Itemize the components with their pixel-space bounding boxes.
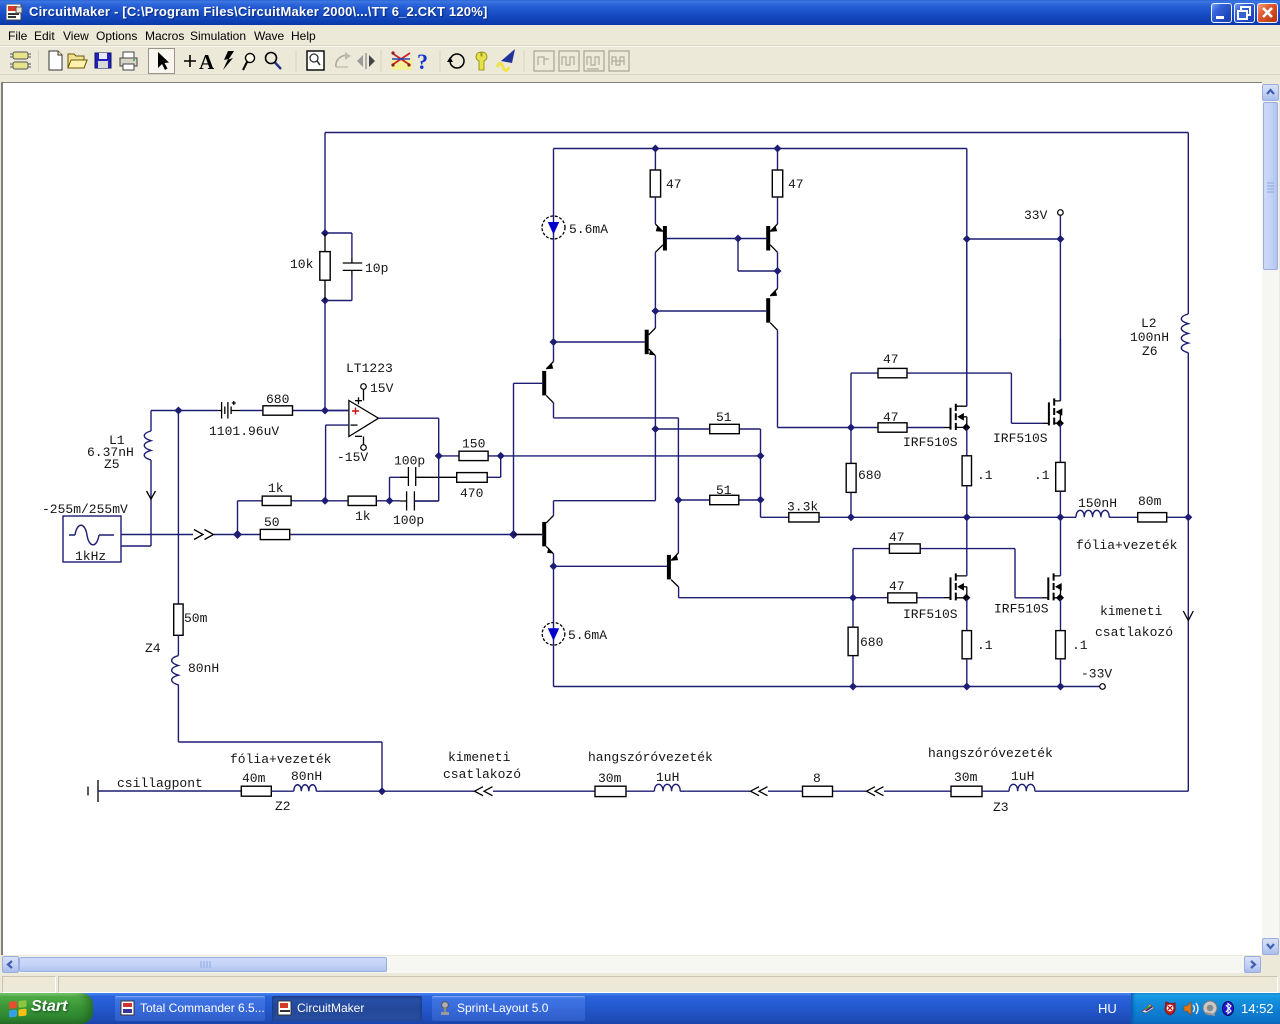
resistor 47 lower gate C — [853, 530, 1048, 598]
inductor L2 100nH Z6 right rail — [1130, 133, 1188, 792]
taskbar — [0, 993, 1280, 1024]
transistor Q4 VAS NPN — [554, 311, 656, 429]
node at 553.5,566.3 — [550, 562, 558, 570]
svg-text:51: 51 — [716, 483, 732, 498]
status bar — [0, 974, 1280, 993]
svg-text:47: 47 — [666, 177, 682, 192]
inductor 150nH output — [1076, 496, 1117, 517]
svg-text:33V: 33V — [1024, 208, 1048, 223]
wire op-amp output — [379, 418, 439, 501]
svg-text:80nH: 80nH — [188, 661, 219, 676]
wire negative rail bottom — [554, 645, 1100, 686]
svg-text:LT1223: LT1223 — [346, 361, 393, 376]
connector chevrons right2 — [867, 787, 884, 796]
wire source output — [121, 534, 542, 536]
node at 1188.3,517.3 — [1184, 513, 1192, 521]
svg-text:10p: 10p — [365, 261, 388, 276]
node at 678.4,500 — [674, 496, 682, 504]
mosfet M1 IRF510S upper-left — [903, 239, 970, 456]
inductor 80nH Z4 — [172, 635, 220, 687]
window title bar — [0, 0, 1280, 25]
wire top supply rail — [325, 132, 1188, 134]
connector chevrons right — [194, 530, 214, 540]
node at 853,686.5 — [849, 683, 857, 691]
svg-text:1kHz: 1kHz — [75, 549, 106, 564]
resistor .1 lower-left — [962, 631, 993, 687]
resistor 47 upper right rail — [772, 149, 803, 198]
resistor 50m Z4 — [145, 604, 208, 656]
icon open — [68, 54, 87, 68]
svg-text:csatlakozó: csatlakozó — [1095, 625, 1173, 640]
svg-text:100nH: 100nH — [1130, 330, 1169, 345]
svg-text:Z4: Z4 — [145, 641, 161, 656]
icon mirror — [357, 53, 375, 69]
wire output rail — [851, 516, 1076, 518]
svg-text:150nH: 150nH — [1078, 496, 1117, 511]
node at 178.4,410.5 — [174, 407, 182, 415]
svg-text:IRF510S: IRF510S — [903, 607, 958, 622]
wire star point to connector — [321, 790, 474, 792]
svg-text:150: 150 — [462, 437, 485, 452]
icon save — [95, 53, 111, 68]
node at 1060.4,239 — [1056, 235, 1064, 243]
svg-text:30m: 30m — [598, 771, 622, 786]
svg-text:Z6: Z6 — [1142, 344, 1158, 359]
svg-text:IRF510S: IRF510S — [993, 431, 1048, 446]
resistor 3.3k — [761, 500, 852, 523]
icon new — [49, 51, 62, 70]
mosfet M2 IRF510S upper-right — [993, 339, 1064, 462]
vertical scrollbar — [1262, 84, 1279, 955]
inductor 1uH speaker2 — [982, 769, 1041, 791]
icon rotate gray — [336, 52, 351, 67]
svg-text:Z2: Z2 — [275, 799, 291, 814]
svg-text:-255m/255mV: -255m/255mV — [42, 502, 128, 517]
wire Q6 emitter to Q7 base — [554, 565, 667, 567]
inductor 80nH Z2 — [271, 769, 322, 791]
resistor 30m speaker2 Z3 — [884, 770, 1009, 815]
grayed scope buttons — [534, 51, 629, 71]
node at 777.5,148.5 — [774, 145, 782, 153]
node at 513.5,534.5 — [509, 530, 518, 539]
svg-text:47: 47 — [883, 410, 899, 425]
icon lightning — [223, 51, 234, 70]
horizontal scrollbar — [2, 956, 1261, 973]
svg-text:1101.96uV: 1101.96uV — [209, 424, 279, 439]
toolbar — [0, 46, 1280, 79]
transistor Q3 PNP driver — [766, 271, 851, 428]
svg-text:.1: .1 — [977, 468, 993, 483]
node at 500.7,455.9 — [497, 452, 505, 460]
resistor 51 lower — [678, 483, 760, 505]
node at 1060.5,686.5 — [1057, 683, 1065, 691]
svg-text:hangszóróvezeték: hangszóróvezeték — [588, 750, 713, 765]
node at 655.4,311 — [651, 307, 659, 315]
svg-text:47: 47 — [889, 530, 905, 545]
resistor 10k — [290, 233, 330, 301]
svg-text:8: 8 — [813, 771, 821, 786]
node at 325,500.8 — [321, 497, 329, 505]
svg-text:.1: .1 — [977, 638, 993, 653]
svg-text:50: 50 — [264, 515, 280, 530]
node at 325,410.5 — [321, 407, 329, 415]
svg-text:50m: 50m — [184, 611, 208, 626]
svg-text:kimeneti: kimeneti — [448, 750, 511, 765]
wire Q2 base loop — [738, 239, 778, 272]
transistor Q7 lower PNP — [667, 500, 853, 598]
node at 777.5,271 — [774, 267, 782, 275]
wire second rail to current source I1 — [554, 149, 967, 217]
node at 760.5,455.9 — [757, 452, 765, 460]
svg-text:.1: .1 — [1034, 468, 1050, 483]
capacitor 10p — [325, 233, 388, 301]
svg-text:-15V: -15V — [337, 450, 368, 465]
resistor 8 speaker — [768, 771, 866, 797]
wire input battery row — [151, 410, 349, 412]
ground csillagpont — [88, 776, 241, 802]
mosfet M3 IRF510S lower-left — [903, 517, 970, 630]
svg-text:51: 51 — [716, 410, 732, 425]
resistor .1 upper-right — [1034, 462, 1065, 517]
svg-text:Z3: Z3 — [993, 800, 1009, 815]
resistor 1k first — [262, 481, 291, 506]
node at 438.7,455.9 — [435, 452, 443, 460]
connector chevrons mid — [751, 787, 768, 796]
node at 760.5,499.8 — [757, 496, 765, 504]
selected arrow tool — [149, 49, 175, 74]
icon reset — [447, 54, 464, 68]
transistor Q5 input PNP — [514, 342, 679, 535]
terminal 33V — [1058, 210, 1064, 216]
inductor 1uH speaker1 — [626, 770, 686, 791]
resistor 80m output — [1109, 494, 1188, 522]
node at 237.5,534.5 — [233, 530, 242, 539]
current source I1 5.6mA — [542, 216, 608, 239]
connector chevrons kimeneti — [475, 787, 493, 796]
svg-text:1k: 1k — [355, 509, 371, 524]
node at 655.4,148.5 — [651, 145, 659, 153]
svg-text:80m: 80m — [1138, 494, 1162, 509]
arrow on right rail — [1183, 611, 1193, 621]
resistor 150 — [459, 437, 488, 461]
signal source V2 sine — [42, 502, 128, 564]
svg-text:IRF510S: IRF510S — [994, 602, 1049, 617]
op-amp U1 LT1223 — [325, 361, 394, 501]
svg-text:80nH: 80nH — [291, 769, 322, 784]
wire Q3 base — [655, 310, 766, 312]
node at 389.5,500.8 — [386, 497, 394, 505]
icon probe — [243, 52, 256, 70]
resistor 30m speaker1 — [493, 771, 626, 797]
icon zoom — [266, 53, 282, 70]
wire Z4 to star point — [178, 687, 382, 791]
resistor 470 — [457, 456, 501, 501]
svg-text:100p: 100p — [393, 513, 424, 528]
svg-text:1k: 1k — [268, 481, 284, 496]
svg-text:IRF510S: IRF510S — [903, 435, 958, 450]
capacitor 100p upper — [390, 454, 457, 501]
resistor 47 upper left rail — [650, 149, 681, 198]
capacitor 100p lower — [393, 491, 439, 528]
svg-text:5.6mA: 5.6mA — [568, 628, 607, 643]
resistor .1 lower-right — [1056, 631, 1088, 687]
wire 33V feed horizontal — [967, 149, 1061, 407]
icon browse chip — [10, 52, 31, 69]
svg-text:47: 47 — [788, 177, 804, 192]
resistor 47 lower gate D — [853, 579, 951, 603]
node at 1060.4,517.3 — [1056, 513, 1064, 521]
svg-text:40m: 40m — [242, 771, 266, 786]
svg-text:680: 680 — [858, 468, 881, 483]
svg-text:30m: 30m — [954, 770, 978, 785]
svg-text:Z5: Z5 — [104, 457, 120, 472]
svg-text:10k: 10k — [290, 257, 314, 272]
svg-text:?: ? — [417, 49, 428, 74]
wire mid row 150 — [439, 455, 761, 457]
svg-text:.1: .1 — [1072, 638, 1088, 653]
wire 1k feedback row — [238, 501, 401, 535]
node at 382,791 — [378, 787, 386, 795]
icon wrench yellow — [476, 52, 487, 70]
resistor .1 upper-left — [962, 456, 993, 518]
svg-text:1uH: 1uH — [1011, 769, 1034, 784]
icon plus — [184, 55, 196, 67]
svg-text:47: 47 — [889, 579, 905, 594]
icon print — [120, 52, 137, 70]
node at 851,427.5 — [847, 424, 855, 432]
svg-text:kimeneti: kimeneti — [1100, 604, 1163, 619]
wire to chevron2 — [686, 790, 750, 792]
svg-text:A: A — [199, 50, 215, 74]
icon wire check colored — [391, 51, 412, 70]
wire current source to first stage node — [553, 239, 555, 342]
svg-text:680: 680 — [266, 392, 289, 407]
resistor 680 lower — [848, 598, 883, 687]
wire chain to right rail — [1041, 790, 1188, 792]
wire left vertical from top rail to op-amp input — [324, 133, 326, 411]
icon run signal — [497, 49, 515, 71]
svg-text:-33V: -33V — [1081, 667, 1112, 682]
svg-text:fólia+vezeték: fólia+vezeték — [230, 752, 332, 767]
transistor Q1 upper-left PNP — [655, 197, 766, 311]
resistor 47 upper gate A — [851, 352, 1049, 428]
node at 325,300.5 — [321, 297, 329, 305]
svg-text:L2: L2 — [1141, 316, 1157, 331]
svg-text:csillagpont: csillagpont — [117, 776, 203, 791]
svg-text:5.6mA: 5.6mA — [569, 222, 608, 237]
node at 553.5,342 — [550, 338, 558, 346]
node at 738,238.5 — [734, 235, 742, 243]
node at 655.4,429 — [651, 425, 659, 433]
resistor 1k second — [348, 496, 376, 524]
svg-text:3.3k: 3.3k — [787, 500, 818, 515]
node at 325,233 — [321, 229, 329, 237]
battery V1 1101.96uV — [209, 401, 279, 439]
resistor 50 — [260, 515, 289, 540]
node at 851,517.3 — [847, 513, 855, 521]
svg-text:100p: 100p — [394, 454, 425, 469]
resistor 680 upper — [846, 428, 881, 518]
svg-text:680: 680 — [860, 635, 883, 650]
svg-text:fólia+vezeték: fólia+vezeték — [1076, 538, 1178, 553]
transistor Q6 lower NPN — [514, 429, 656, 566]
icon zoom window — [307, 51, 324, 70]
terminal -33V — [1081, 667, 1112, 690]
resistor 51 upper — [655, 410, 760, 517]
wire Z4 branch vertical — [177, 411, 179, 605]
resistor 680 input — [263, 392, 293, 415]
node at 966.8,239 — [963, 235, 971, 243]
svg-text:csatlakozó: csatlakozó — [443, 767, 521, 782]
current source I2 5.6mA — [542, 566, 607, 645]
transistor Q2 upper-right PNP — [766, 197, 777, 271]
svg-text:470: 470 — [460, 486, 483, 501]
menu bar — [0, 25, 1280, 46]
mosfet M4 IRF510S lower-right — [994, 517, 1064, 630]
svg-text:hangszóróvezeték: hangszóróvezeték — [928, 746, 1053, 761]
svg-text:47: 47 — [883, 352, 899, 367]
svg-text:15V: 15V — [370, 381, 394, 396]
svg-text:1uH: 1uH — [656, 770, 679, 785]
resistor 47 upper gate B — [851, 410, 951, 432]
node at 966.8,686.5 — [963, 683, 971, 691]
inductor L1 6.37nH Z5 — [87, 411, 156, 547]
node at 966.8,517.3 — [963, 513, 971, 521]
resistor 40m Z2 — [241, 771, 290, 814]
node at 853,597.7 — [849, 594, 857, 602]
